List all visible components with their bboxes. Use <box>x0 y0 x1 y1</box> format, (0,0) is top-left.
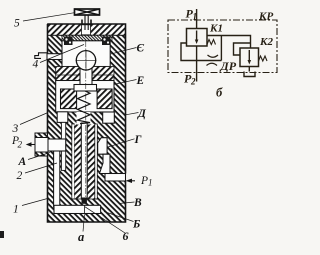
partition joint line <box>56 74 114 76</box>
ball valve element <box>76 51 95 70</box>
cap slot <box>82 25 91 35</box>
spring cup right wall <box>97 89 112 109</box>
vent passage 4 <box>47 54 62 60</box>
stem foot valve 6 <box>82 198 87 204</box>
valve K2 flow arrow <box>248 50 250 62</box>
port P2 boss lower flange <box>35 152 48 156</box>
svg-text:1: 1 <box>13 204 19 216</box>
spring <box>78 91 91 124</box>
svg-text:а: а <box>78 230 84 244</box>
wire P2 output <box>196 46 198 82</box>
bottom chamber a <box>54 205 101 213</box>
valve K1 flow arrow <box>196 31 198 42</box>
leader Є <box>110 48 137 55</box>
svg-text:5: 5 <box>14 18 20 30</box>
port P1 slot <box>105 174 126 182</box>
svg-text:Г: Г <box>134 134 142 146</box>
leader Д <box>125 113 139 116</box>
boundary KP dash-dot frame <box>168 20 277 73</box>
valve K1 spring <box>207 40 216 45</box>
svg-text:Є: Є <box>137 43 145 55</box>
vent fitting <box>35 53 48 59</box>
port P2 boss upper flange <box>35 133 48 138</box>
svg-text:3: 3 <box>12 123 19 135</box>
leader 4 <box>40 45 84 63</box>
wire throttle branch <box>197 60 222 62</box>
wire K1 pilot loop <box>181 43 197 61</box>
spring well white <box>77 112 91 125</box>
valve seat plate <box>62 35 112 41</box>
leader a <box>83 215 85 232</box>
left pocket (spool land) <box>57 112 68 123</box>
svg-text:1: 1 <box>193 12 198 22</box>
centerline <box>85 41 87 205</box>
svg-text:4: 4 <box>33 58 39 70</box>
P1 flow arrow <box>126 179 133 183</box>
lock nut ticks <box>81 20 83 26</box>
svg-text:2: 2 <box>190 77 196 87</box>
left seal ring <box>64 37 73 46</box>
spool stem bore <box>81 123 87 198</box>
drilled channel 2 <box>54 143 60 207</box>
svg-text:ДР: ДР <box>220 59 237 73</box>
leader B <box>119 202 135 204</box>
svg-text:2: 2 <box>18 140 23 150</box>
svg-text:А: А <box>18 156 27 168</box>
page edge mark <box>0 231 4 238</box>
leader 5 <box>23 13 75 21</box>
left clearance gap <box>72 124 75 199</box>
chamber Е (spring chamber) <box>56 81 114 113</box>
adjusting knob 5 <box>75 9 100 15</box>
svg-text:1: 1 <box>148 178 153 188</box>
leader 6 <box>85 207 125 233</box>
valve K2 box <box>240 48 259 67</box>
leader 3 <box>20 113 48 125</box>
sleeve right column <box>88 124 95 199</box>
adjusting screw stem <box>84 15 86 30</box>
wire K2 drain <box>248 67 250 72</box>
leader Е <box>114 80 137 85</box>
spring retainer plate <box>74 85 97 92</box>
svg-text:6: 6 <box>123 229 129 243</box>
svg-text:P: P <box>140 175 148 187</box>
ball crosshair vertical <box>85 50 87 71</box>
svg-text:Б: Б <box>132 218 140 230</box>
svg-text:КР: КР <box>258 11 273 23</box>
sleeve bottom joint line <box>72 198 98 200</box>
wire P1 supply <box>196 9 198 29</box>
svg-text:б: б <box>216 86 223 100</box>
spring cup left wall <box>61 89 77 109</box>
svg-text:В: В <box>133 197 142 209</box>
leader 1 <box>22 199 48 206</box>
partition band below chamber Є <box>56 67 114 81</box>
svg-text:Д: Д <box>137 108 147 120</box>
svg-text:К2: К2 <box>259 36 273 48</box>
body outer outline <box>48 24 126 222</box>
leader 2 <box>25 163 57 173</box>
pocket drain channel <box>61 122 65 170</box>
chamber Є (ball chamber) <box>62 41 110 67</box>
right seal ring <box>102 37 111 46</box>
chamber Г pocket <box>98 138 107 155</box>
port P2 opening <box>35 138 48 153</box>
poppet stem slot <box>80 67 92 85</box>
right pocket (spool land) <box>103 112 115 123</box>
wire throttle riser <box>220 36 222 61</box>
right clearance gap <box>95 124 98 199</box>
P2 flow arrow <box>26 142 32 146</box>
sleeve left column <box>75 124 82 199</box>
valve body hatched bulk <box>48 35 126 222</box>
top cap band <box>48 24 126 35</box>
leader Б <box>104 212 134 222</box>
valve K2 spring <box>259 56 268 61</box>
svg-text:К1: К1 <box>209 23 223 35</box>
seat passage Г-В <box>100 154 111 173</box>
svg-text:Е: Е <box>136 75 145 87</box>
throttle ДР arcs <box>208 55 219 57</box>
ball crosshair horizontal <box>76 59 97 61</box>
svg-text:2: 2 <box>17 170 23 182</box>
wire K1 to K2 <box>207 36 251 49</box>
leader Г <box>108 139 135 147</box>
port passage A <box>47 139 66 151</box>
tank symbol <box>244 72 255 77</box>
wire K2 pilot loop <box>234 43 251 55</box>
valve K1 box <box>187 29 208 47</box>
chamber a divider <box>84 205 86 213</box>
leader A <box>28 153 50 160</box>
